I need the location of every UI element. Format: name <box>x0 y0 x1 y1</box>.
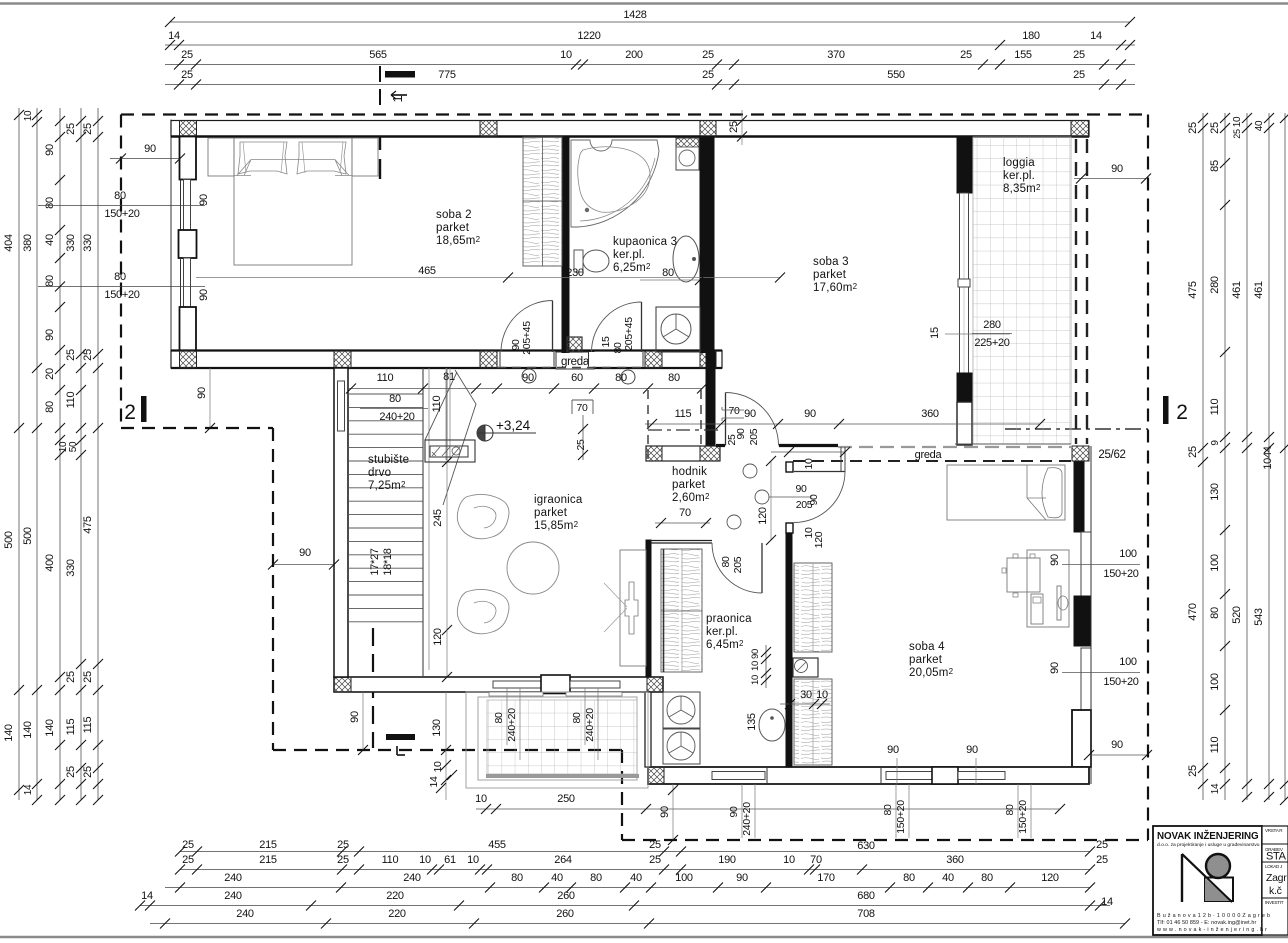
svg-text:80: 80 <box>720 556 732 568</box>
svg-text:25: 25 <box>181 49 193 61</box>
svg-text:100: 100 <box>1119 548 1137 560</box>
svg-text:1428: 1428 <box>623 9 646 21</box>
svg-text:250: 250 <box>557 793 575 805</box>
svg-text:500: 500 <box>22 527 34 545</box>
svg-text:40: 40 <box>1254 120 1265 131</box>
svg-text:14: 14 <box>23 784 34 795</box>
svg-text:150+20: 150+20 <box>104 289 139 301</box>
svg-text:461: 461 <box>1231 281 1243 299</box>
soba4 chair <box>1007 558 1040 592</box>
svg-text:90: 90 <box>349 711 361 723</box>
bottom dim chain row3 <box>165 887 1090 889</box>
svg-text:80: 80 <box>1004 804 1016 816</box>
svg-text:220: 220 <box>386 890 404 902</box>
svg-text:115: 115 <box>65 719 77 736</box>
svg-text:240+20: 240+20 <box>741 802 753 836</box>
door circle soba2 <box>522 369 536 383</box>
svg-text:135: 135 <box>746 713 758 731</box>
svg-text:20,05m2: 20,05m2 <box>909 667 954 679</box>
svg-text:80: 80 <box>668 372 680 384</box>
svg-text:10: 10 <box>432 761 444 773</box>
svg-text:25: 25 <box>82 671 94 683</box>
column top-right loggia <box>1071 121 1089 137</box>
door soba3 leaf+arc <box>725 393 727 446</box>
svg-text:110: 110 <box>65 392 77 409</box>
column top-x700 <box>700 121 716 137</box>
dim line greda corridor y388 <box>349 388 702 390</box>
svg-text:14: 14 <box>1101 896 1113 908</box>
svg-text:110: 110 <box>431 396 443 413</box>
soba4 right window 1 <box>1081 532 1091 596</box>
svg-text:10: 10 <box>803 458 815 470</box>
level mark +3,24 <box>477 425 493 441</box>
svg-text:180: 180 <box>1022 30 1040 42</box>
svg-text:90: 90 <box>750 649 761 659</box>
igraonica armchair 2 <box>457 589 509 633</box>
svg-text:25: 25 <box>1209 122 1221 134</box>
svg-text:25: 25 <box>1073 49 1085 61</box>
top dim chain line 25/565/10/200/25/370/25/155/25 <box>165 64 1135 66</box>
kupaonica sink <box>673 236 699 282</box>
terrace outer rect <box>466 692 648 788</box>
soba4 wardrobe lower <box>794 679 832 765</box>
svg-text:w w w . n o v a k - i n ž e n: w w w . n o v a k - i n ž e n j e r i n … <box>1156 927 1267 933</box>
svg-text:80: 80 <box>571 712 583 724</box>
svg-text:ker.pl.: ker.pl. <box>613 249 645 261</box>
soba4 right window 2 <box>1081 648 1091 710</box>
door opening soba2 <box>500 352 554 367</box>
column soba4 NE <box>1072 446 1089 461</box>
greda box <box>556 352 594 369</box>
terrace window sills <box>489 692 543 696</box>
terrace gray edge <box>486 774 639 778</box>
svg-text:greda: greda <box>915 449 943 461</box>
svg-text:1220: 1220 <box>577 30 600 42</box>
svg-text:25: 25 <box>1096 854 1108 866</box>
title logo <box>1181 854 1183 902</box>
section marker 1 top <box>385 71 415 78</box>
outer facade line left <box>170 120 172 369</box>
praonica wardrobe <box>661 549 702 672</box>
wall niche/soba3 <box>706 352 715 446</box>
svg-text:330: 330 <box>65 559 77 577</box>
svg-text:260: 260 <box>556 908 574 920</box>
igraonica bottom window 2 <box>570 681 620 688</box>
svg-text:25: 25 <box>702 49 714 61</box>
column praonica W top <box>647 677 663 692</box>
svg-text:150+20: 150+20 <box>1017 800 1029 834</box>
praonica west wall <box>645 692 651 767</box>
soba4 wardrobe divider upper <box>812 563 814 652</box>
svg-text:630: 630 <box>857 840 875 852</box>
svg-text:25: 25 <box>1187 122 1199 134</box>
soba2 pillow left <box>238 142 287 174</box>
svg-text:330: 330 <box>65 234 77 252</box>
column niche left <box>646 446 662 461</box>
svg-text:25: 25 <box>960 49 972 61</box>
section line 1 upper <box>379 66 381 111</box>
svg-text:80: 80 <box>44 401 56 413</box>
praonica washing machine 2 <box>663 729 700 764</box>
svg-text:90: 90 <box>736 872 748 884</box>
svg-text:INVESTIT: INVESTIT <box>1265 900 1284 905</box>
svg-text:85: 85 <box>1209 160 1221 172</box>
svg-text:18,65m2: 18,65m2 <box>436 235 481 247</box>
stubiste landing box <box>425 440 475 462</box>
svg-text:170: 170 <box>817 872 835 884</box>
svg-text:2: 2 <box>124 401 135 424</box>
svg-text:140: 140 <box>44 719 56 737</box>
svg-text:6,45m2: 6,45m2 <box>706 639 744 651</box>
svg-text:Zagr: Zagr <box>1266 872 1287 884</box>
svg-text:soba 3: soba 3 <box>813 256 849 268</box>
svg-text:soba 4: soba 4 <box>909 641 945 653</box>
svg-text:115: 115 <box>675 408 692 420</box>
svg-text:drvo: drvo <box>368 467 391 479</box>
door soba2 leaf+arc <box>552 301 554 353</box>
svg-text:10: 10 <box>560 49 572 61</box>
svg-text:400: 400 <box>44 554 56 572</box>
svg-text:90: 90 <box>1111 739 1123 751</box>
svg-text:500: 500 <box>3 531 15 549</box>
svg-text:parket: parket <box>436 222 470 234</box>
svg-text:70: 70 <box>728 405 740 417</box>
dim 465 soba2 <box>196 277 780 279</box>
svg-text:8,35m2: 8,35m2 <box>1003 183 1041 195</box>
stubiste break line <box>443 370 476 505</box>
svg-text:10: 10 <box>750 675 761 685</box>
svg-text:215: 215 <box>259 854 277 866</box>
svg-text:25: 25 <box>337 839 349 851</box>
svg-text:17*27: 17*27 <box>369 548 381 575</box>
svg-text:25: 25 <box>82 123 94 135</box>
column praonica SW <box>648 767 664 784</box>
svg-text:80: 80 <box>44 275 56 287</box>
svg-text:80: 80 <box>389 393 401 405</box>
svg-text:soba 2: soba 2 <box>436 209 472 221</box>
bottom dim chain row5 <box>150 923 1125 925</box>
dim 70 hodnik <box>655 522 710 524</box>
svg-text:520: 520 <box>1231 606 1243 624</box>
stubiste stairs treads <box>348 393 423 395</box>
svg-text:80: 80 <box>903 872 915 884</box>
svg-text:110: 110 <box>382 854 399 866</box>
dim 90 soba4 SE <box>1089 754 1147 756</box>
svg-text:240: 240 <box>236 908 254 920</box>
svg-text:90: 90 <box>887 744 899 756</box>
svg-text:100: 100 <box>1119 656 1137 668</box>
svg-text:25: 25 <box>65 671 77 683</box>
column x480 bottom soba2 <box>480 351 497 368</box>
svg-text:parket: parket <box>672 479 706 491</box>
right dim chain lines <box>1202 113 1204 800</box>
svg-text:90: 90 <box>808 494 820 506</box>
soba3 bottom wall <box>716 444 725 447</box>
svg-text:205: 205 <box>748 428 760 445</box>
svg-text:200: 200 <box>625 49 643 61</box>
svg-text:15,85m2: 15,85m2 <box>534 520 579 532</box>
svg-text:240: 240 <box>403 872 421 884</box>
svg-text:225+20: 225+20 <box>974 337 1009 349</box>
kupaonica washing machine <box>656 307 700 352</box>
svg-text:245: 245 <box>432 509 444 527</box>
svg-text:25: 25 <box>182 839 194 851</box>
svg-text:10: 10 <box>1232 116 1243 127</box>
greda dashed line through openings <box>497 367 648 369</box>
svg-text:120: 120 <box>757 507 769 525</box>
svg-text:20: 20 <box>44 368 56 380</box>
top dim chain line 25/775/25/550/25 <box>165 84 1135 86</box>
svg-text:10: 10 <box>467 854 479 866</box>
svg-text:6,25m2: 6,25m2 <box>613 262 651 274</box>
kupaonica counter top right <box>676 138 699 170</box>
bottom dim chain row2 <box>180 869 1090 871</box>
svg-text:hodnik: hodnik <box>672 466 707 478</box>
svg-text:190: 190 <box>718 854 736 866</box>
praonica wardrobe divider <box>681 549 683 672</box>
loggia east wall dashed <box>1075 139 1077 444</box>
svg-text:80: 80 <box>981 872 993 884</box>
svg-text:Tlf: 01 46 50 859 - E: novak.i: Tlf: 01 46 50 859 - E: novak.ing@inet.hr <box>1157 920 1256 926</box>
soba4 right wall pier lower <box>1072 710 1091 767</box>
frame bottom gray line <box>0 936 1288 939</box>
svg-text:205: 205 <box>732 556 744 573</box>
svg-text:90: 90 <box>196 387 208 399</box>
svg-text:25: 25 <box>65 349 77 361</box>
svg-text:150+20: 150+20 <box>895 800 907 834</box>
bottom dim chain row4 <box>140 905 1110 907</box>
svg-text:70: 70 <box>679 507 691 519</box>
svg-text:370: 370 <box>827 49 845 61</box>
svg-text:80: 80 <box>114 271 126 283</box>
svg-text:40: 40 <box>942 872 954 884</box>
svg-text:ker.pl.: ker.pl. <box>706 626 738 638</box>
svg-text:parket: parket <box>813 269 847 281</box>
left dim chain lines <box>18 108 20 800</box>
svg-text:25: 25 <box>181 69 193 81</box>
svg-text:25: 25 <box>82 766 94 778</box>
svg-text:90: 90 <box>744 408 756 420</box>
svg-text:VRSTA R: VRSTA R <box>1265 828 1283 833</box>
svg-text:100: 100 <box>1209 673 1221 691</box>
wall soba3/loggia pier bottom <box>957 373 972 402</box>
svg-text:455: 455 <box>488 839 506 851</box>
svg-text:25: 25 <box>575 439 587 451</box>
svg-text:80: 80 <box>662 267 674 279</box>
praonica top wall lines <box>650 540 712 542</box>
svg-text:90: 90 <box>659 806 671 818</box>
svg-text:10: 10 <box>475 793 487 805</box>
svg-text:14: 14 <box>168 30 180 42</box>
svg-text:205+45: 205+45 <box>521 321 533 355</box>
svg-text:60: 60 <box>571 372 583 384</box>
svg-text:25: 25 <box>728 121 740 133</box>
svg-text:155: 155 <box>1014 49 1032 61</box>
section line 2 segment hodnik <box>648 429 722 431</box>
column x648 bottom kupaonica <box>645 351 662 368</box>
svg-text:80: 80 <box>882 804 894 816</box>
svg-text:90: 90 <box>795 483 807 495</box>
svg-text:150+20: 150+20 <box>1103 676 1138 688</box>
svg-text:15: 15 <box>600 336 612 348</box>
wall igraonica/praonica <box>646 540 651 677</box>
niche wall band hodnik <box>646 446 720 461</box>
svg-text:120: 120 <box>432 628 444 646</box>
dashed boundary left mid <box>272 428 274 750</box>
svg-text:25: 25 <box>82 349 94 361</box>
soba4 bottom window 1 <box>886 772 932 780</box>
igraonica armchair 1 <box>457 494 509 538</box>
dim 90 loggia right <box>1074 178 1146 180</box>
igraonica tv unit <box>620 550 646 666</box>
jamb stub kupaonica wall <box>567 337 582 352</box>
top exterior wall <box>171 121 1089 137</box>
section line 1 lower <box>372 628 374 748</box>
dashed boundary y750 <box>273 749 622 751</box>
praonica washing machine 1 <box>663 692 700 728</box>
svg-text:50: 50 <box>68 441 79 452</box>
svg-text:90: 90 <box>299 547 311 559</box>
top dim chain line 1428 <box>170 21 1130 23</box>
svg-text:14: 14 <box>141 890 153 902</box>
svg-text:25: 25 <box>649 854 661 866</box>
section marker 2 right <box>1163 396 1169 424</box>
svg-text:150+20: 150+20 <box>1103 568 1138 580</box>
svg-text:70: 70 <box>810 854 822 866</box>
svg-text:stubište: stubište <box>368 454 409 466</box>
igraonica table <box>507 542 559 594</box>
column niche right <box>700 446 720 461</box>
soba4 bottom wall <box>648 767 1089 784</box>
svg-text:90: 90 <box>44 329 56 341</box>
loggia window <box>960 193 969 373</box>
svg-text:greda: greda <box>561 356 590 368</box>
wall praonica/soba4 <box>786 533 792 767</box>
svg-text:240: 240 <box>224 872 242 884</box>
svg-text:parket: parket <box>534 507 568 519</box>
soba2 nightstand right <box>352 138 378 176</box>
svg-text:17,60m2: 17,60m2 <box>813 282 858 294</box>
svg-text:25: 25 <box>702 69 714 81</box>
svg-text:100: 100 <box>1209 554 1221 572</box>
svg-text:90: 90 <box>804 408 816 420</box>
svg-text:475: 475 <box>82 516 94 534</box>
wall soba2/kupaonica <box>562 137 569 353</box>
svg-text:ker.pl.: ker.pl. <box>1003 170 1035 182</box>
svg-text:240+20: 240+20 <box>506 708 518 742</box>
soba4 wardrobe upper <box>794 563 832 652</box>
column x700 bottom kupaonica <box>700 351 716 368</box>
svg-text:230: 230 <box>566 267 584 279</box>
loggia bottom edge <box>955 443 1071 445</box>
svg-text:215: 215 <box>259 839 277 851</box>
svg-text:80: 80 <box>511 872 523 884</box>
soba4 bottom window 2 <box>958 772 1005 780</box>
igraonica bottom window 1 <box>493 681 541 688</box>
left wall pier lower <box>180 307 197 351</box>
door praonica leaf+arc <box>761 543 763 593</box>
wall soba3/loggia pier top <box>957 137 972 193</box>
svg-text:igraonica: igraonica <box>534 494 583 506</box>
door soba4 leaf+arc <box>794 471 845 473</box>
right dim ticks <box>1198 113 1208 123</box>
svg-text:LOKAD J: LOKAD J <box>1265 864 1282 869</box>
soba4 right wall black mid <box>1074 596 1091 646</box>
svg-text:708: 708 <box>857 908 875 920</box>
svg-text:80: 80 <box>590 872 602 884</box>
svg-text:120: 120 <box>1041 872 1059 884</box>
svg-text:10: 10 <box>23 110 34 121</box>
svg-text:25: 25 <box>182 854 194 866</box>
left dim ticks <box>14 110 24 120</box>
svg-text:565: 565 <box>369 49 387 61</box>
svg-text:205+45: 205+45 <box>623 317 635 351</box>
column igraonica SW <box>334 677 351 692</box>
dim 90 soba2 top-left <box>110 158 180 160</box>
svg-text:90: 90 <box>1049 554 1061 566</box>
svg-text:9: 9 <box>1210 440 1221 446</box>
dim line soba3 bottom y424 <box>716 423 1040 425</box>
column soba4 SE <box>1072 767 1089 784</box>
svg-text:130: 130 <box>1209 483 1221 501</box>
svg-text:10: 10 <box>750 661 761 671</box>
svg-text:90: 90 <box>144 143 156 155</box>
svg-text:775: 775 <box>438 69 456 81</box>
svg-text:1044: 1044 <box>1262 446 1274 469</box>
loggia floor tile grid <box>973 137 1071 444</box>
svg-text:1: 1 <box>390 95 405 102</box>
section marker 1 bottom <box>386 734 415 740</box>
svg-text:110: 110 <box>1209 399 1221 416</box>
svg-text:NOVAK INŽENJERING: NOVAK INŽENJERING <box>1157 830 1259 842</box>
title block frame <box>1153 826 1262 935</box>
soba4 bottom window 0 <box>712 772 765 780</box>
svg-text:680: 680 <box>857 890 875 902</box>
svg-text:7,25m2: 7,25m2 <box>368 480 406 492</box>
stubiste left wall <box>334 368 348 677</box>
svg-text:220: 220 <box>388 908 406 920</box>
column top-left <box>180 121 197 137</box>
dashed boundary right <box>1147 115 1149 841</box>
greda dashes under soba3/soba4 <box>838 446 1071 448</box>
svg-text:25: 25 <box>65 123 77 135</box>
svg-text:25: 25 <box>65 766 77 778</box>
svg-text:140: 140 <box>22 721 34 739</box>
soba2 pillow right <box>297 142 346 174</box>
door circle kupaonica <box>621 370 635 384</box>
svg-text:2,60m2: 2,60m2 <box>672 492 710 504</box>
svg-text:461: 461 <box>1253 281 1265 299</box>
svg-text:14: 14 <box>428 776 440 788</box>
svg-text:90: 90 <box>198 289 210 301</box>
bottom dim chain row1 <box>180 851 1090 853</box>
svg-text:30: 30 <box>800 689 812 701</box>
left wall window 2 <box>180 258 182 307</box>
igraonica bottom window pier <box>541 675 570 694</box>
soba4 bed <box>947 465 1065 520</box>
door kupaonica leaf+arc <box>641 302 643 352</box>
svg-text:240+20: 240+20 <box>584 708 596 742</box>
svg-text:260: 260 <box>557 890 575 902</box>
svg-text:90: 90 <box>198 194 210 206</box>
svg-text:40: 40 <box>630 872 642 884</box>
left wall mullion block <box>179 230 197 258</box>
niche dashed verticals <box>647 390 649 460</box>
soba4 right wall black upper <box>1074 461 1084 532</box>
soba4 computer tower <box>1031 594 1043 624</box>
svg-text:10: 10 <box>419 854 431 866</box>
top dim chain line 14/1220/180/14 <box>165 44 1135 46</box>
